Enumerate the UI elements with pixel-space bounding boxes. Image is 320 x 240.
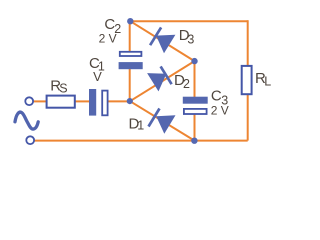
svg-text:2 V: 2 V [99, 31, 117, 45]
svg-text:2 V: 2 V [211, 103, 229, 117]
svg-text:S: S [59, 82, 67, 96]
svg-text:2: 2 [183, 77, 190, 91]
svg-text:L: L [264, 75, 271, 89]
svg-text:1: 1 [137, 118, 144, 132]
svg-text:3: 3 [187, 32, 194, 46]
svg-text:V: V [93, 69, 102, 84]
